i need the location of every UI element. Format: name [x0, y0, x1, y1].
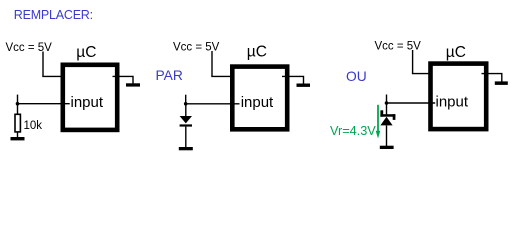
wire Vcc3 horizontal to U3: [412, 73, 435, 75]
zener D2 cathode bar: [380, 114, 395, 117]
node junction dot 3: [385, 101, 389, 105]
zener D2 right hook: [393, 114, 396, 120]
ground bar (U1): [126, 83, 140, 86]
wire input3 from node to U3 pin: [387, 102, 436, 104]
wire R1 top: [17, 104, 19, 114]
svg-text:PAR: PAR: [156, 68, 183, 83]
ground bar (D1): [179, 147, 193, 150]
wire U1 gnd pin: [113, 76, 134, 83]
svg-text:Vcc = 5V: Vcc = 5V: [6, 42, 53, 54]
wire Vcc1 vertical drop: [42, 52, 44, 77]
wire D1 cathode to ground: [185, 127, 187, 148]
node junction dot 1: [16, 102, 20, 106]
mcu U1 box: [63, 65, 117, 130]
svg-text:Vr=4.3V: Vr=4.3V: [330, 124, 376, 138]
wire R1 bottom: [17, 133, 19, 138]
resistor R1: [15, 114, 20, 132]
svg-text:µC: µC: [446, 44, 466, 61]
diode D1 triangle: [180, 116, 192, 123]
svg-text:µC: µC: [76, 44, 96, 61]
wire U3 gnd pin: [482, 74, 502, 82]
mcu U3 box: [431, 64, 487, 130]
ground bar (U3): [495, 81, 508, 85]
ground bar (R1): [11, 137, 25, 140]
wire Vcc1 horizontal to U1: [42, 75, 67, 77]
diode D1 cathode bar: [180, 124, 192, 126]
ground bar (U2): [297, 84, 311, 87]
node junction dot 2: [184, 102, 188, 106]
wire U2 gnd pin: [282, 76, 304, 83]
wire D1 anode: [185, 104, 187, 116]
zener D2 left hook: [380, 110, 383, 116]
svg-text:REMPLACER:: REMPLACER:: [14, 8, 93, 22]
wire input2 from node to U2 pin: [186, 103, 240, 105]
arrow Vr (green voltage arrow): [377, 105, 379, 131]
svg-text:Vcc = 5V: Vcc = 5V: [375, 41, 422, 53]
svg-text:µC: µC: [247, 44, 267, 61]
svg-text:10k: 10k: [24, 120, 43, 132]
wire Vcc2 horizontal to U2: [211, 75, 237, 77]
wire input1 from node to U1 pin: [18, 103, 70, 105]
wire Vcc2 vertical drop: [211, 51, 213, 76]
ground bar (D2): [380, 146, 394, 149]
mcu U2 box: [232, 67, 287, 130]
svg-text:OU: OU: [346, 69, 367, 84]
wire D2 cathode from node: [386, 103, 388, 114]
wire stub above node 3: [386, 95, 388, 104]
svg-text:input: input: [71, 94, 104, 111]
svg-text:input: input: [241, 94, 274, 111]
wire Vcc3 vertical drop: [412, 50, 414, 74]
zener D2 triangle: [380, 117, 392, 126]
wire D2 anode to ground: [386, 125, 388, 146]
wire stub above node 2: [185, 95, 187, 104]
svg-text:input: input: [436, 93, 469, 110]
wire stub above node 1: [17, 95, 19, 104]
